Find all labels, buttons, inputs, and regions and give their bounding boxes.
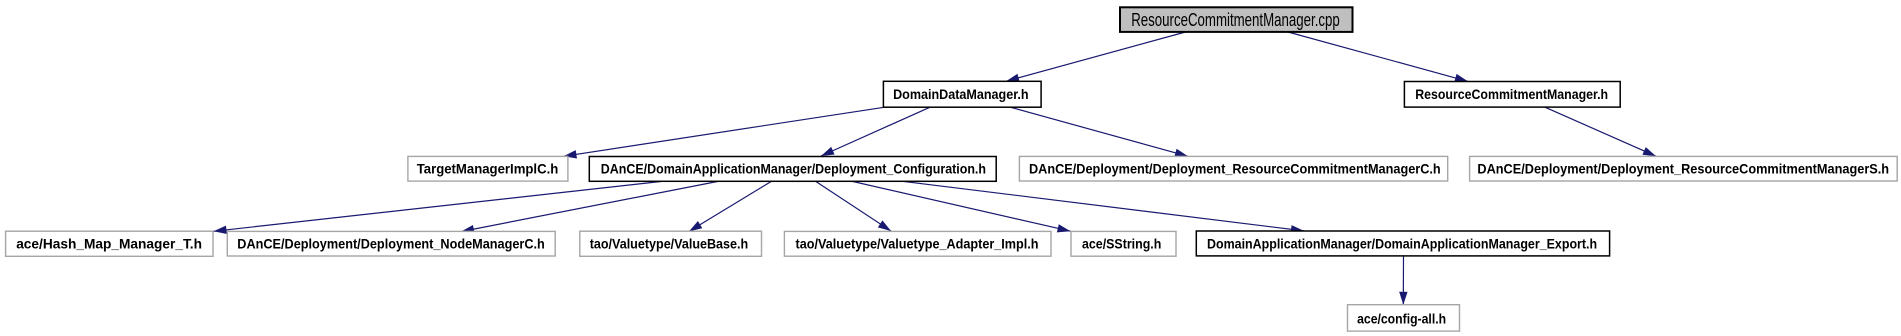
edge Deployment_Configuration.h -> Deployment_NodeManagerC.h <box>461 182 717 232</box>
svg-text:DomainDataManager.h: DomainDataManager.h <box>893 86 1029 102</box>
edge DomainApplicationManager_Export.h -> ace/config-all.h <box>1402 256 1404 305</box>
svg-text:DAnCE/Deployment/Deployment_Re: DAnCE/Deployment/Deployment_ResourceComm… <box>1477 160 1889 176</box>
node ace/SString.h <box>1071 231 1176 256</box>
node DomainApplicationManager/DomainApplicationManager_Export.h <box>1196 231 1609 256</box>
svg-text:tao/Valuetype/ValueBase.h: tao/Valuetype/ValueBase.h <box>590 235 749 251</box>
svg-text:TargetManagerImplC.h: TargetManagerImplC.h <box>417 160 559 176</box>
svg-text:DAnCE/DomainApplicationManager: DAnCE/DomainApplicationManager/Deploymen… <box>601 160 986 176</box>
node ace/Hash_Map_Manager_T.h <box>6 231 213 256</box>
svg-text:ace/SString.h: ace/SString.h <box>1082 235 1161 251</box>
svg-text:DomainApplicationManager/Domai: DomainApplicationManager/DomainApplicati… <box>1207 235 1597 251</box>
edge Deployment_Configuration.h -> tao/Valuetype/Valuetype_Adapter_Impl.h <box>816 182 891 232</box>
edge DomainDataManager.h -> Deployment_Configuration.h <box>821 107 930 156</box>
edge Deployment_Configuration.h -> ace/Hash_Map_Manager_T.h <box>214 182 661 232</box>
edge DomainDataManager.h -> TargetManagerImplC.h <box>564 107 885 156</box>
svg-text:ace/config-all.h: ace/config-all.h <box>1357 310 1446 326</box>
edge Deployment_Configuration.h -> tao/Valuetype/ValueBase.h <box>689 182 771 232</box>
node DAnCE/DomainApplicationManager/Deployment_Configuration.h <box>589 157 996 182</box>
node ResourceCommitmentManager.h <box>1404 82 1620 108</box>
node DAnCE/Deployment/Deployment_NodeManagerC.h <box>227 231 555 256</box>
edge DomainDataManager.h -> Deployment_ResourceCommitmentManagerC.h <box>1011 107 1188 156</box>
svg-text:ResourceCommitmentManager.cpp: ResourceCommitmentManager.cpp <box>1131 10 1340 30</box>
svg-text:DAnCE/Deployment/Deployment_Re: DAnCE/Deployment/Deployment_ResourceComm… <box>1029 160 1441 176</box>
node ace/config-all.h <box>1348 305 1460 331</box>
edge ResourceCommitmentManager.cpp -> ResourceCommitmentManager.h <box>1288 32 1468 81</box>
edge Deployment_Configuration.h -> ace/SString.h <box>853 182 1071 232</box>
node DAnCE/Deployment/Deployment_ResourceCommitmentManagerC.h <box>1019 156 1447 181</box>
svg-text:ace/Hash_Map_Manager_T.h: ace/Hash_Map_Manager_T.h <box>16 235 202 251</box>
node DomainDataManager.h <box>883 81 1041 107</box>
edge ResourceCommitmentManager.cpp -> DomainDataManager.h <box>1006 32 1186 81</box>
node DAnCE/Deployment/Deployment_ResourceCommitmentManagerS.h <box>1470 156 1898 181</box>
edge ResourceCommitmentManager.h -> Deployment_ResourceCommitmentManagerS.h <box>1545 107 1656 156</box>
svg-text:ResourceCommitmentManager.h: ResourceCommitmentManager.h <box>1415 86 1608 102</box>
node tao/Valuetype/ValueBase.h <box>580 231 762 256</box>
node TargetManagerImplC.h <box>408 156 568 181</box>
node ResourceCommitmentManager.cpp (root) <box>1120 7 1353 32</box>
edge Deployment_Configuration.h -> DomainApplicationManager_Export.h <box>903 181 1305 231</box>
svg-text:DAnCE/Deployment/Deployment_No: DAnCE/Deployment/Deployment_NodeManagerC… <box>237 235 545 251</box>
node tao/Valuetype/Valuetype_Adapter_Impl.h <box>784 231 1051 256</box>
svg-text:tao/Valuetype/Valuetype_Adapte: tao/Valuetype/Valuetype_Adapter_Impl.h <box>796 235 1039 251</box>
